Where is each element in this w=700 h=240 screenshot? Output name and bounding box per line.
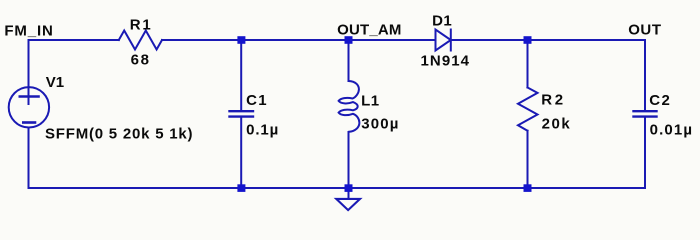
node junction R2 top (524, 36, 532, 44)
wire top rail middle: R1 to D1 anode (162, 39, 436, 41)
svg-text:OUT_AM: OUT_AM (337, 21, 401, 38)
wire C1 top lead (240, 40, 242, 110)
svg-text:R1: R1 (130, 17, 151, 34)
wire bottom rail (29, 187, 646, 189)
resistor R1 (119, 31, 162, 50)
inductor L1 (339, 81, 360, 132)
svg-text:FM_IN: FM_IN (4, 23, 52, 40)
svg-text:20k: 20k (542, 116, 571, 133)
svg-text:L1: L1 (361, 92, 379, 109)
svg-text:V1: V1 (46, 74, 64, 91)
svg-text:SFFM(0 5 20k 5 1k): SFFM(0 5 20k 5 1k) (45, 126, 193, 143)
wire L1 bottom lead (348, 132, 350, 188)
svg-text:68: 68 (131, 52, 149, 69)
node junction C1 top (237, 36, 245, 44)
svg-text:C1: C1 (246, 92, 267, 109)
svg-text:1N914: 1N914 (421, 53, 470, 70)
wire R2 bottom lead (527, 131, 529, 188)
diode D1 (436, 30, 451, 51)
node junction C1 bottom (237, 184, 245, 192)
svg-text:0.1µ: 0.1µ (246, 121, 278, 138)
resistor R2 (518, 88, 538, 131)
wire top rail right: D1 cathode to OUT corner (451, 40, 645, 110)
svg-text:OUT: OUT (628, 22, 661, 39)
wire top rail left: FM_IN corner to R1 (29, 40, 119, 104)
node junction OUT_AM / L1 top (345, 36, 353, 44)
voltage source V1 (9, 87, 49, 127)
wire L1 top lead (348, 40, 350, 81)
wire V1 bottom to bottom rail (28, 128, 30, 189)
ground (336, 188, 360, 210)
capacitor C2 (634, 111, 657, 116)
svg-text:C2: C2 (649, 92, 670, 109)
wire R2 top lead (527, 40, 529, 88)
svg-text:300µ: 300µ (361, 116, 398, 133)
svg-text:D1: D1 (432, 12, 452, 29)
wire C1 bottom lead (240, 118, 242, 188)
node junction ground (345, 184, 353, 192)
node junction R2 bottom (524, 184, 532, 192)
wire C2 bottom lead (644, 118, 646, 188)
svg-text:0.01µ: 0.01µ (650, 121, 692, 138)
capacitor C1 (230, 111, 254, 116)
